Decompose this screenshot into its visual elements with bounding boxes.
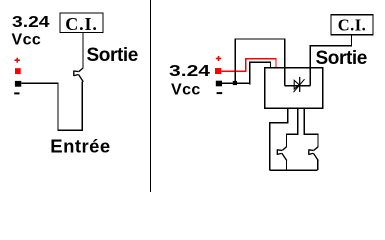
LED D1 cathode bar <box>299 77 301 92</box>
bottom rail wire <box>270 169 318 171</box>
wire from C.I. to switch S1 <box>82 33 84 69</box>
battery B2 plus <box>216 56 221 61</box>
svg-text:C.I.: C.I. <box>338 16 367 35</box>
junction node <box>233 81 237 85</box>
wire from minus terminal <box>222 82 250 84</box>
battery B2 minus <box>217 92 223 94</box>
svg-text:3.24: 3.24 <box>169 63 210 80</box>
switch S2 bottom contact wire <box>286 160 288 170</box>
wire relay contact to switch S2 <box>286 108 297 147</box>
wire relay contact to switch S3 <box>304 108 318 147</box>
divider line between the two schematics <box>150 0 152 192</box>
svg-text:Entrée: Entrée <box>50 135 110 156</box>
LED D1 triangle <box>294 80 299 89</box>
svg-text:C.I.: C.I. <box>65 14 98 34</box>
battery B2 plus terminal <box>215 68 221 74</box>
svg-text:Sortie: Sortie <box>316 48 367 69</box>
IC U2 "C.I." box right <box>331 15 373 35</box>
svg-text:3.24: 3.24 <box>12 14 50 31</box>
svg-text:Vcc: Vcc <box>12 31 42 48</box>
red wire from plus to relay box <box>221 59 276 72</box>
switch S3 (push switch, bottom right) <box>309 147 319 161</box>
IC U1 "C.I." box left <box>60 13 103 34</box>
switch S1 (push switch, left) <box>74 68 84 82</box>
wire staircase from minus to relay box top <box>250 62 271 84</box>
switch S2 (push switch, bottom left) <box>277 147 287 161</box>
wire relay common to bottom rail <box>270 108 288 170</box>
switch S3 bottom contact wire <box>317 160 319 170</box>
label 3.24 Vcc (right supply value) <box>169 63 210 98</box>
battery B1 minus terminal <box>15 81 21 87</box>
wire from minus terminal to Entrée loop <box>21 82 82 131</box>
LED D1 slash <box>294 79 305 92</box>
svg-text:Vcc: Vcc <box>171 81 201 98</box>
battery B1 minus <box>14 92 19 94</box>
battery B2 minus terminal <box>216 81 222 87</box>
wire from LED cathode to C.I. <box>310 35 351 86</box>
battery B1 plus <box>15 58 20 63</box>
wire from junction up over to LED anode <box>235 39 285 86</box>
relay K1 body <box>265 68 323 108</box>
label 3.24 Vcc (left supply value) <box>12 14 50 49</box>
battery B1 plus terminal <box>15 68 21 74</box>
svg-text:Sortie: Sortie <box>87 45 138 66</box>
LED D1 inside relay: wire <box>285 85 311 87</box>
